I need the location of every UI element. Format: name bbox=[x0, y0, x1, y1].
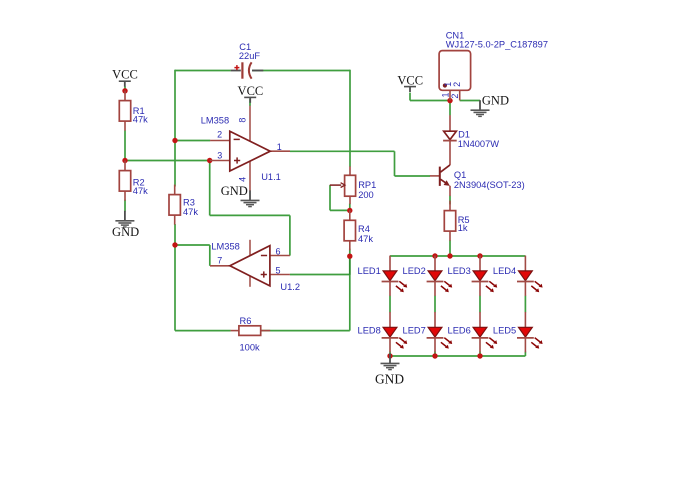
svg-text:1: 1 bbox=[277, 142, 282, 152]
wire VCC to CN1 pin1 node bbox=[410, 100, 450, 102]
wire output corner down bbox=[394, 151, 396, 176]
node CN1 pin1/VCC bbox=[447, 98, 452, 103]
wire U1.2 pin5 to feedback column bbox=[290, 274, 350, 276]
svg-text:LED2: LED2 bbox=[403, 266, 426, 276]
svg-text:VCC: VCC bbox=[238, 84, 264, 98]
svg-text:5: 5 bbox=[275, 265, 280, 275]
power VCC right bbox=[397, 73, 423, 92]
svg-text:U1.1: U1.1 bbox=[261, 172, 281, 182]
resistor R3 bbox=[169, 185, 198, 225]
potentiometer RP1 bbox=[330, 166, 376, 204]
wire R5 to LED rail bbox=[449, 240, 451, 256]
wire R4 bottom to node bbox=[349, 249, 351, 257]
wire LED column mid x=480 bbox=[479, 296, 481, 313]
ground GND right bbox=[471, 93, 509, 116]
power VCC left bbox=[112, 68, 138, 87]
node pin2 tap bbox=[172, 138, 177, 143]
LED LED8 bbox=[358, 312, 408, 352]
svg-text:LED7: LED7 bbox=[403, 325, 426, 335]
wire R3 bottom down to R6 row bbox=[174, 224, 176, 331]
node pin7 tap bbox=[172, 242, 177, 247]
svg-text:8: 8 bbox=[237, 118, 247, 123]
svg-text:2: 2 bbox=[217, 129, 222, 139]
svg-text:47k: 47k bbox=[183, 207, 198, 217]
node RP1/R4 bbox=[347, 208, 352, 213]
wire LED column mid x=525.4 bbox=[524, 296, 526, 313]
wire LED column bottom x=525.4 bbox=[524, 352, 526, 356]
LED LED1 bbox=[358, 256, 408, 296]
wire RP1 wiper down bbox=[329, 185, 331, 210]
svg-text:6: 6 bbox=[275, 246, 280, 256]
wire elbow down to U1.2 pin7 bbox=[209, 245, 211, 266]
svg-text:LM358: LM358 bbox=[211, 242, 239, 252]
junction rail LED7 bbox=[432, 353, 437, 358]
junction rail LED3 bbox=[477, 253, 482, 258]
wire wiper to RP1 bottom node bbox=[330, 209, 350, 211]
wire divider node to U1.1 pin3 bbox=[125, 160, 210, 162]
svg-text:VCC: VCC bbox=[112, 68, 138, 82]
node divider R1/R2 bbox=[122, 158, 127, 163]
wire R2 to GND bbox=[124, 200, 126, 212]
junction rail R5 bbox=[447, 253, 452, 258]
svg-text:LED6: LED6 bbox=[448, 325, 471, 335]
wire pin3 node down bbox=[209, 161, 211, 216]
wire LED column bottom x=390 bbox=[389, 352, 391, 356]
svg-text:U1.2: U1.2 bbox=[280, 282, 300, 292]
wire LED cathode rail bbox=[390, 355, 525, 357]
LED LED7 bbox=[403, 312, 453, 352]
wire down to U1.2 pin6 bbox=[289, 215, 291, 255]
node R4 bottom bbox=[347, 254, 352, 259]
wire LED column mid x=435 bbox=[434, 296, 436, 313]
junction rail LED2 bbox=[432, 253, 437, 258]
power VCC U1.1 bbox=[238, 84, 264, 103]
wire R6 row left bbox=[175, 330, 231, 332]
wire right branch x=350 down to RP1 bbox=[349, 70, 351, 167]
resistor R6 bbox=[231, 316, 271, 352]
op-amp U1.2 bbox=[210, 240, 300, 292]
svg-text:Q1: Q1 bbox=[454, 170, 466, 180]
LED LED4 bbox=[493, 256, 543, 296]
wire R1 to divider node bbox=[124, 131, 126, 161]
resistor R4 bbox=[344, 210, 373, 250]
svg-text:R4: R4 bbox=[358, 224, 370, 234]
wire CN1 node down to D1 bbox=[449, 101, 451, 116]
svg-text:LED3: LED3 bbox=[448, 266, 471, 276]
svg-text:47k: 47k bbox=[133, 186, 148, 196]
wire LED anode rail bbox=[390, 255, 525, 257]
node VCC-R1 bbox=[122, 88, 127, 93]
LED LED6 bbox=[448, 312, 498, 352]
svg-text:GND: GND bbox=[221, 184, 248, 198]
wire across to U1.2 pin6 column bbox=[210, 214, 290, 216]
svg-text:1N4007W: 1N4007W bbox=[458, 139, 500, 149]
wire VCC right stub bbox=[409, 93, 411, 101]
transistor Q1 bbox=[430, 165, 525, 196]
ground GND left bbox=[112, 211, 139, 239]
wire R6 row right bbox=[261, 330, 350, 332]
wire overlap segment to pin5 node bbox=[349, 256, 351, 275]
wire CN1 pin2 to GND bbox=[460, 100, 480, 102]
svg-text:2: 2 bbox=[452, 82, 462, 87]
ground GND bottom bbox=[375, 353, 404, 386]
svg-text:LED8: LED8 bbox=[358, 325, 381, 335]
LED LED5 bbox=[493, 312, 543, 352]
svg-text:LM358: LM358 bbox=[201, 116, 229, 126]
wire Q1 emitter to R5 bbox=[449, 196, 451, 205]
svg-text:47k: 47k bbox=[358, 234, 373, 244]
wire top net left of C1 bbox=[175, 70, 231, 72]
svg-text:4: 4 bbox=[237, 177, 247, 182]
svg-text:GND: GND bbox=[112, 225, 139, 239]
svg-text:100k: 100k bbox=[240, 342, 261, 352]
svg-text:47k: 47k bbox=[133, 115, 148, 125]
resistor R5 bbox=[444, 201, 469, 241]
svg-text:2N3904(SOT-23): 2N3904(SOT-23) bbox=[454, 180, 525, 190]
svg-text:LED4: LED4 bbox=[493, 266, 516, 276]
wire U1.1 pin1 output bbox=[290, 150, 395, 152]
wire left branch x=175 down to R3 bbox=[174, 70, 176, 187]
wire feedback column down to R6 bbox=[349, 256, 351, 330]
svg-text:2: 2 bbox=[450, 94, 460, 99]
LED LED3 bbox=[448, 256, 498, 296]
wire LED column mid x=390 bbox=[389, 296, 391, 313]
svg-text:WJ127-5.0-2P_C187897: WJ127-5.0-2P_C187897 bbox=[446, 40, 548, 50]
ground GND U1.1 bbox=[221, 184, 260, 207]
wire junction to U1.2 pin7 elbow bbox=[175, 244, 210, 246]
wire LED column bottom x=435 bbox=[434, 352, 436, 356]
svg-text:LED1: LED1 bbox=[358, 266, 381, 276]
svg-text:LED5: LED5 bbox=[493, 325, 516, 335]
wire LED column bottom x=480 bbox=[479, 352, 481, 356]
svg-text:1k: 1k bbox=[458, 223, 468, 233]
svg-text:R6: R6 bbox=[240, 316, 252, 326]
wire to U1.1 pin2 bbox=[175, 140, 210, 142]
node pin3 bbox=[207, 158, 212, 163]
connector CN1 bbox=[439, 30, 548, 100]
resistor R1 bbox=[119, 91, 148, 131]
junction rail LED6 bbox=[477, 353, 482, 358]
svg-text:GND: GND bbox=[482, 93, 509, 107]
op-amp U1.1 bbox=[201, 99, 290, 191]
diode D1 bbox=[443, 115, 499, 165]
svg-text:1: 1 bbox=[440, 92, 450, 97]
svg-text:VCC: VCC bbox=[397, 73, 423, 87]
svg-text:3: 3 bbox=[217, 150, 222, 160]
wire VCC stub to R1 node bbox=[124, 86, 126, 90]
resistor R2 bbox=[119, 161, 148, 201]
svg-text:22uF: 22uF bbox=[239, 51, 261, 61]
wire top net right of C1 bbox=[252, 70, 350, 72]
wire RP1 bottom to node bbox=[349, 204, 351, 211]
svg-text:R3: R3 bbox=[183, 198, 195, 208]
junction rail GND bbox=[387, 353, 392, 358]
wire to Q1 base bbox=[395, 175, 431, 177]
svg-text:200: 200 bbox=[358, 190, 374, 200]
svg-text:7: 7 bbox=[217, 256, 222, 266]
svg-text:GND: GND bbox=[375, 372, 404, 387]
capacitor C1 bbox=[231, 42, 264, 78]
svg-text:RP1: RP1 bbox=[358, 180, 376, 190]
LED LED2 bbox=[403, 256, 453, 296]
